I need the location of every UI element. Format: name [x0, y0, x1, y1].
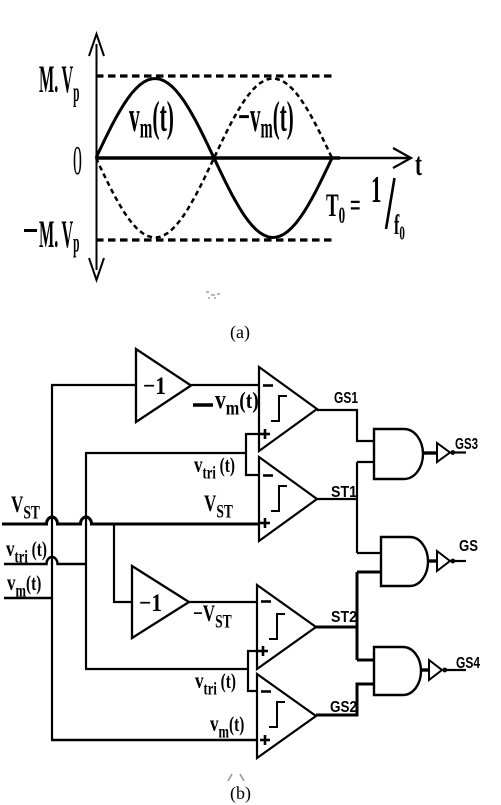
comparator U4	[257, 674, 316, 758]
label t	[415, 145, 423, 182]
wire GS1 output	[317, 410, 375, 441]
wire G1 output stub	[423, 451, 437, 454]
label GS4	[456, 655, 480, 672]
label GS3	[455, 436, 478, 453]
wire -vm output to comparator U1	[191, 384, 260, 386]
label vST (mid)	[204, 491, 233, 521]
svg-text:0: 0	[73, 138, 82, 183]
label (a)	[230, 322, 250, 343]
label vST (left)	[11, 492, 40, 522]
wire vtri input stub with hop	[4, 557, 86, 564]
svg-text:−1: −1	[139, 590, 162, 617]
label T0 = 1/f0	[326, 187, 361, 230]
label (b)	[230, 783, 251, 804]
label -vm(t)	[238, 94, 294, 145]
wire G3 output stub	[421, 668, 429, 671]
wire vST branch down to inverter A2	[114, 523, 132, 602]
svg-text:(b): (b)	[230, 783, 251, 804]
faint scan artifact dots	[206, 291, 220, 299]
output buffer B3	[429, 660, 466, 680]
dashed curve -vm(t)	[96, 79, 332, 238]
dashed level line M.Vp	[96, 74, 333, 77]
wire ST1 node	[317, 462, 382, 553]
wire vm vertical bus	[51, 384, 53, 740]
wire bracket feeding U3+ and U4-	[248, 651, 258, 691]
label GS	[459, 538, 478, 555]
label vm(t) (left)	[7, 570, 41, 600]
solid curve vm(t)	[96, 79, 332, 238]
svg-text:ST2: ST2	[331, 609, 357, 626]
label ST1	[331, 484, 357, 501]
label -vST	[193, 601, 232, 631]
vertical amplitude axis	[89, 34, 104, 280]
svg-text:ST1: ST1	[331, 484, 357, 501]
dashed level line -M.Vp	[96, 238, 332, 241]
label vtri(t) (left)	[6, 536, 47, 566]
wire vm lower branch to U4+	[51, 739, 258, 741]
wire ST2 node	[316, 572, 382, 660]
label vm(t) lower	[210, 711, 244, 741]
label ST2	[331, 609, 357, 626]
AND gate G2	[381, 537, 428, 586]
wire vtri lower branch	[85, 668, 249, 670]
label GS2	[330, 699, 357, 716]
label M.Vp	[39, 58, 80, 108]
output buffer B2	[437, 551, 466, 571]
svg-text:(a): (a)	[230, 322, 250, 343]
wire -vST output to comparator U3	[189, 601, 258, 603]
wire GS2 output	[316, 684, 374, 715]
svg-text:GS4: GS4	[456, 655, 480, 672]
AND gate G3	[374, 647, 421, 695]
svg-text:t: t	[415, 145, 423, 182]
wire bracket feeding U1+ and U2-	[246, 434, 260, 475]
comparator U1	[259, 367, 317, 451]
comparator U3	[257, 585, 316, 669]
label -vm(t)	[193, 386, 259, 419]
wire vm input stub	[4, 597, 53, 599]
wire vtri upper branch	[85, 452, 247, 454]
svg-text:1: 1	[371, 169, 381, 211]
label -M.Vp	[24, 213, 80, 258]
label 0	[73, 138, 82, 183]
wire G2 output stub	[428, 559, 437, 562]
svg-text:GS1: GS1	[334, 390, 358, 407]
label vtri(t) upper	[194, 452, 235, 482]
label GS1	[334, 390, 358, 407]
AND gate G1	[374, 429, 423, 479]
inverter A1 (-1)	[136, 349, 191, 422]
label vm(t)	[129, 94, 174, 145]
wire vtri vertical bus	[85, 453, 87, 669]
inverter A2 (-1)	[132, 566, 189, 638]
svg-text:GS: GS	[459, 538, 478, 555]
svg-text:GS2: GS2	[330, 699, 357, 716]
output buffer B1	[437, 443, 466, 462]
horizontal time axis	[96, 148, 411, 168]
wire vm to inverter A1	[51, 384, 136, 386]
label vtri(t) lower	[195, 668, 236, 698]
svg-text:vm(t): vm(t)	[129, 94, 174, 145]
svg-text:GS3: GS3	[455, 436, 478, 453]
wire vST input line with crossover hops	[2, 517, 259, 524]
svg-text:−1: −1	[143, 373, 166, 400]
faint scan artifact marks above (b)	[228, 774, 244, 781]
comparator U2	[259, 457, 317, 541]
